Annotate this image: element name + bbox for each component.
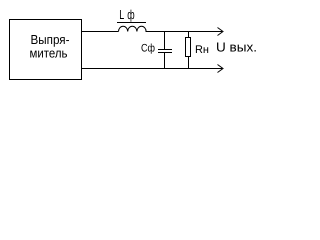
wire: top rail, inductor to output [146,31,223,33]
svg-text:L: L [119,7,124,22]
label: Выпрямитель [30,32,70,61]
svg-text:митель: митель [30,46,68,61]
output arrow bottom [218,65,224,73]
resistor R1 top lead [188,32,190,39]
rectifier box U1 [10,20,82,80]
svg-text:U вых.: U вых. [216,40,257,55]
svg-text:Сф: Сф [141,43,155,55]
label L ф [119,7,135,22]
output arrow top [218,28,224,36]
capacitor C1 bottom plate [158,52,172,54]
svg-text:ф: ф [127,7,135,22]
inductor L1 core bar [117,22,146,24]
capacitor C1 top lead [164,32,166,50]
resistor R1 body [186,38,191,57]
resistor R1 bottom lead [188,57,190,69]
wire: top rail, box to inductor [81,31,119,33]
wire: bottom rail [81,68,222,70]
inductor L1 coil [119,26,147,31]
svg-text:Rн: Rн [195,44,209,56]
capacitor C1 top plate [158,49,172,51]
capacitor C1 bottom lead [164,53,166,69]
